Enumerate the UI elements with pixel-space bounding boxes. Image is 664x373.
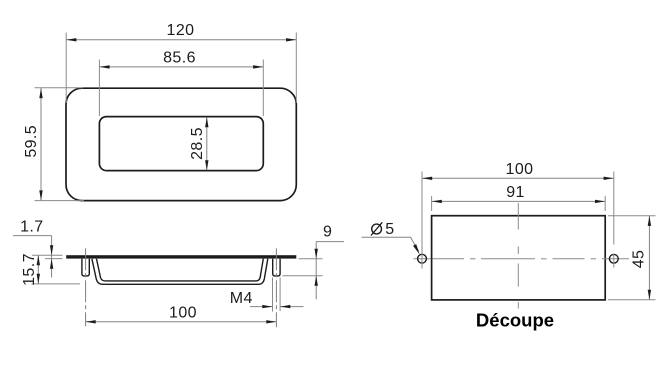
dimension 59.5: [23, 88, 43, 200]
svg-text:15.7: 15.7: [21, 253, 38, 286]
svg-text:120: 120: [167, 22, 195, 39]
dimension 15.7 extension line: [32, 283, 81, 285]
tray inner wall: [97, 259, 264, 281]
svg-text:9: 9: [323, 224, 332, 241]
right screw post M4: [273, 259, 280, 276]
right post centerline: [275, 248, 277, 327]
svg-text:1.7: 1.7: [20, 219, 43, 236]
dimension 59.5 extension lines: [35, 88, 85, 201]
svg-text:59.5: 59.5: [23, 125, 40, 158]
horizontal centerline of cutout: [414, 258, 630, 260]
dimension 85.6 extension lines: [99, 60, 263, 117]
dimension 100 (post spacing): [86, 304, 277, 323]
dimension 1.7: [13, 219, 53, 278]
dimension M4 extension lines: [273, 278, 281, 312]
svg-text:100: 100: [506, 161, 534, 178]
dimension 91: [432, 184, 605, 203]
dimension M4: [230, 290, 304, 309]
dimension 1.7 extension lines: [32, 255, 63, 258]
svg-text:Découpe: Découpe: [476, 309, 554, 330]
front view recess pocket: [99, 117, 263, 171]
svg-text:5: 5: [385, 221, 394, 238]
dimension 100 (hole spacing): [422, 161, 613, 180]
left hole extension line: [421, 172, 423, 269]
left screw post M4: [82, 259, 89, 276]
svg-text:M4: M4: [230, 290, 253, 307]
dimension 91 extension ticks: [432, 196, 606, 211]
dimension 85.6: [100, 49, 264, 68]
dimension 28.5: [189, 117, 209, 170]
svg-text:100: 100: [169, 304, 197, 321]
dimension 45: [631, 216, 651, 300]
flange plate (section, filled): [66, 255, 296, 258]
left mounting hole: [418, 254, 427, 263]
hole diameter leader: [362, 237, 420, 254]
vertical centerline of cutout: [517, 203, 519, 309]
svg-text:28.5: 28.5: [189, 127, 206, 160]
svg-text:91: 91: [506, 184, 525, 201]
dimension 120 extension lines: [66, 33, 296, 104]
right mounting hole: [609, 254, 618, 263]
caption Decoupe: [476, 309, 554, 330]
dimension 9: [315, 224, 345, 300]
svg-text:85.6: 85.6: [163, 49, 196, 66]
svg-text:45: 45: [631, 250, 648, 269]
front view outer body: [66, 88, 296, 200]
hole diameter label 5: [371, 221, 395, 238]
dimension 9 extension lines: [283, 259, 323, 276]
dimension 15.7: [21, 253, 40, 286]
right hole extension line: [613, 172, 615, 268]
cutout rectangle: [432, 216, 606, 300]
dimension 120: [66, 22, 296, 42]
tray outer wall: [92, 259, 268, 285]
left post centerline: [85, 248, 87, 326]
dimension 45 extension lines: [608, 216, 656, 300]
